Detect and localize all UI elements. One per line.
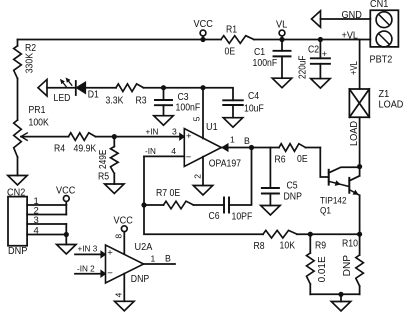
svg-text:DNP: DNP — [284, 192, 303, 203]
svg-text:+IN: +IN — [146, 127, 159, 137]
capacitor C1 — [253, 40, 291, 79]
svg-text:DNP: DNP — [342, 255, 353, 277]
ground — [193, 186, 213, 196]
svg-text:10K: 10K — [280, 241, 296, 252]
svg-text:4: 4 — [171, 146, 176, 156]
wire — [64, 224, 69, 245]
svg-text:R6: R6 — [275, 155, 286, 166]
pin 4 — [27, 226, 66, 237]
capacitor C3 — [155, 88, 200, 116]
capacitor C2 — [297, 37, 330, 79]
svg-text:C4: C4 — [248, 91, 259, 102]
wire — [144, 205, 263, 234]
pin 3 — [27, 215, 66, 226]
svg-text:B: B — [244, 136, 250, 146]
node VCC — [194, 18, 214, 42]
capacitor C4 — [200, 85, 263, 118]
svg-text:LOAD: LOAD — [349, 121, 360, 146]
ground — [223, 118, 243, 128]
ground — [311, 79, 331, 89]
svg-text:0E: 0E — [297, 154, 308, 165]
net +VL — [342, 30, 359, 42]
ground — [8, 176, 28, 186]
svg-text:3.3K: 3.3K — [106, 95, 124, 106]
pin 4 GND — [114, 274, 125, 302]
svg-text:1: 1 — [230, 135, 235, 145]
wire — [17, 79, 19, 121]
svg-text:+VL: +VL — [342, 30, 359, 42]
pin 1 — [27, 196, 66, 207]
resistor R9 — [307, 234, 328, 294]
svg-text:220uF: 220uF — [297, 56, 308, 80]
wire — [349, 117, 360, 166]
svg-text:C5: C5 — [287, 181, 298, 192]
svg-text:3: 3 — [34, 215, 39, 226]
svg-text:R4: R4 — [54, 144, 65, 155]
svg-text:3: 3 — [172, 127, 177, 137]
transistor Q1 — [320, 148, 362, 235]
connector CN2 — [7, 187, 27, 258]
wire — [17, 157, 19, 176]
wire — [297, 232, 362, 237]
svg-text:R9: R9 — [315, 241, 326, 252]
svg-text:C3: C3 — [178, 92, 189, 103]
pin 1 output / node B — [221, 135, 254, 152]
LED D1 — [60, 78, 116, 101]
svg-text:100K: 100K — [29, 117, 50, 128]
svg-text:LOAD: LOAD — [379, 99, 404, 111]
svg-text:GND: GND — [342, 9, 363, 21]
connector CN1 — [370, 0, 399, 66]
svg-text:PR1: PR1 — [29, 105, 46, 116]
svg-text:R7 0E: R7 0E — [156, 188, 180, 199]
svg-text:C2: C2 — [308, 44, 319, 55]
svg-text:PBT2: PBT2 — [370, 54, 393, 66]
ground — [331, 302, 351, 312]
svg-text:Q1: Q1 — [320, 205, 331, 216]
pin 5 VCC — [191, 88, 203, 139]
svg-text:VCC: VCC — [56, 185, 76, 197]
resistor R1 — [221, 24, 254, 57]
capacitor C6 — [194, 148, 253, 223]
port LED — [38, 79, 76, 104]
svg-text:R8: R8 — [254, 241, 265, 252]
svg-text:D1: D1 — [88, 90, 99, 101]
resistor R6 — [252, 144, 321, 166]
svg-text:−: − — [107, 268, 113, 279]
load Z1 — [349, 88, 403, 117]
svg-text:4: 4 — [114, 293, 124, 298]
pin 2 GND — [192, 157, 203, 186]
svg-text:OPA197: OPA197 — [209, 159, 242, 170]
potentiometer PR1 — [14, 105, 69, 157]
svg-text:2: 2 — [192, 174, 202, 179]
ground — [105, 184, 125, 194]
resistor R8 — [254, 230, 298, 252]
svg-text:+: + — [186, 131, 192, 142]
svg-text:R2: R2 — [25, 43, 36, 54]
op-amp U2A — [106, 241, 153, 285]
pin 3 +IN — [146, 127, 185, 140]
svg-text:249E: 249E — [98, 149, 109, 169]
node VCC — [56, 185, 76, 215]
svg-text:R10: R10 — [342, 239, 358, 250]
svg-text:VCC: VCC — [114, 215, 134, 227]
svg-text:-IN 2: -IN 2 — [77, 264, 95, 274]
svg-text:DNP: DNP — [131, 274, 150, 285]
svg-text:DNP: DNP — [8, 245, 27, 257]
svg-text:+: + — [107, 247, 113, 258]
svg-text:0.01E: 0.01E — [317, 256, 328, 282]
ground — [57, 245, 77, 255]
svg-text:1: 1 — [151, 253, 156, 263]
resistor R5 — [98, 137, 118, 184]
op-amp U1 — [184, 121, 241, 170]
svg-text:CN2: CN2 — [7, 187, 25, 199]
pin 4 -IN — [144, 146, 184, 157]
svg-text:R3: R3 — [136, 95, 147, 106]
pin 1 output / node B — [144, 253, 175, 264]
svg-text:R5: R5 — [98, 172, 109, 183]
svg-text:CN1: CN1 — [370, 0, 388, 10]
svg-text:100nF: 100nF — [253, 58, 278, 69]
resistor R3 — [106, 84, 147, 106]
ground — [115, 301, 135, 311]
svg-text:+IN 3: +IN 3 — [78, 244, 98, 254]
svg-text:4: 4 — [34, 226, 39, 237]
svg-text:100nF: 100nF — [176, 103, 201, 114]
svg-text:-IN: -IN — [145, 146, 156, 156]
svg-text:8: 8 — [114, 234, 124, 239]
svg-text:R1: R1 — [226, 24, 237, 35]
svg-text:+VL: +VL — [349, 61, 360, 75]
resistor R7 — [144, 188, 194, 209]
ground — [272, 78, 292, 88]
resistor R4 — [54, 133, 96, 155]
resistor R2 — [14, 40, 37, 79]
svg-text:330K: 330K — [25, 53, 36, 74]
pin 3 +IN — [75, 244, 106, 258]
svg-text:0E: 0E — [225, 47, 236, 58]
ground — [261, 206, 281, 216]
svg-text:49.9K: 49.9K — [74, 144, 97, 155]
svg-text:B: B — [165, 253, 171, 263]
node VL — [276, 19, 287, 43]
wire — [141, 156, 146, 207]
svg-text:10PF: 10PF — [232, 211, 253, 222]
wire — [310, 292, 359, 302]
pin 8 VCC — [114, 215, 134, 254]
resistor R10 — [342, 234, 364, 294]
svg-text:10uF: 10uF — [244, 104, 264, 115]
ground — [154, 116, 174, 126]
svg-text:VL: VL — [276, 19, 287, 31]
svg-text:5: 5 — [191, 116, 201, 121]
svg-text:−: − — [186, 152, 192, 163]
port GND — [312, 9, 371, 27]
svg-text:U2A: U2A — [135, 241, 153, 253]
wire — [254, 39, 370, 41]
svg-text:+: + — [322, 49, 327, 59]
pin 2 — [27, 206, 66, 217]
wire — [96, 134, 181, 139]
capacitor C5 — [262, 148, 302, 206]
wire — [144, 85, 204, 90]
wire — [18, 39, 222, 41]
svg-text:U1: U1 — [206, 121, 218, 133]
wire — [349, 40, 360, 90]
svg-text:C1: C1 — [254, 47, 265, 58]
svg-text:C6: C6 — [209, 211, 220, 222]
svg-text:VCC: VCC — [194, 18, 214, 30]
svg-text:LED: LED — [54, 93, 71, 104]
pin 2 -IN — [75, 264, 106, 277]
